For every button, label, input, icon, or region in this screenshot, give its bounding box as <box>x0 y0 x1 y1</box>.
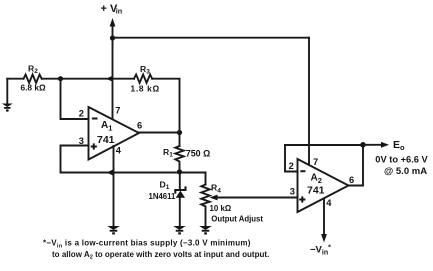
label A2 minus <box>300 170 305 172</box>
wire A1 pin3 stub and feedback loop down-left <box>61 146 206 173</box>
svg-text:741: 741 <box>307 185 325 197</box>
svg-text:2: 2 <box>79 108 84 118</box>
node junction dot pin2 node <box>58 76 63 81</box>
svg-text:to allow A2 to operate with ze: to allow A2 to operate with zero volts a… <box>52 250 269 261</box>
svg-text:3: 3 <box>290 187 295 197</box>
svg-text:R3: R3 <box>140 64 150 76</box>
wire E0 output arrow <box>363 142 389 148</box>
label A1 minus <box>92 118 98 120</box>
junction wedge at pin4 crossing <box>107 170 114 176</box>
wire junction down to A1 pin 2 <box>61 79 89 119</box>
diode D1 zener <box>175 173 185 227</box>
resistor R1 zigzag <box>175 146 183 172</box>
svg-text:4: 4 <box>116 145 122 155</box>
svg-text:0V to +6.6 V: 0V to +6.6 V <box>375 155 428 165</box>
wire A1 pin4 down to ground <box>113 146 115 226</box>
resistor R3 <box>134 75 152 83</box>
resistor R2 <box>24 75 42 83</box>
ground left symbol <box>2 104 13 112</box>
wire R2 right to junction and on to R3 <box>42 78 134 80</box>
svg-text:10 kΩ: 10 kΩ <box>210 204 232 213</box>
svg-text:R2: R2 <box>28 63 38 75</box>
svg-text:4: 4 <box>326 198 332 208</box>
node junction dot output A1 / R3 / R1 <box>177 130 182 135</box>
svg-text:1.8 kΩ: 1.8 kΩ <box>131 84 160 94</box>
op-amp U1 A1 triangle <box>89 107 140 160</box>
ground below D1 <box>173 226 186 235</box>
svg-text:*−Vin is a low-current bias su: *−Vin is a low-current bias supply (−3.0… <box>43 239 251 250</box>
wire +V vertical to A1 pin7 <box>112 38 114 118</box>
op-amp U2 A2 triangle <box>298 159 349 212</box>
wire A1 output pin 6 <box>139 132 180 134</box>
svg-text:6: 6 <box>137 121 142 131</box>
svg-text:Eo: Eo <box>393 139 405 152</box>
svg-text:7: 7 <box>115 106 120 116</box>
label A2 plus <box>299 196 305 202</box>
ground below R4 <box>199 226 212 235</box>
svg-text:A2: A2 <box>311 173 322 186</box>
wire R2-R3 horizontal at y=78.7 <box>7 78 23 80</box>
label A1 plus <box>91 143 97 149</box>
svg-text:3: 3 <box>79 136 84 146</box>
power +Vin arrow <box>110 18 116 38</box>
svg-text:741: 741 <box>97 134 115 146</box>
wire R3 right lead to corner <box>152 79 179 133</box>
svg-text:6.8 kΩ: 6.8 kΩ <box>21 83 46 93</box>
wire output down to pin 6 <box>349 145 364 186</box>
ground left stem <box>6 79 8 104</box>
svg-text:in: in <box>116 7 122 16</box>
wire top rail +Vin <box>113 37 310 39</box>
svg-text:−Vin*: −Vin* <box>310 245 331 257</box>
resistor R4 zigzag <box>201 185 209 227</box>
label +Vin <box>101 3 123 16</box>
svg-text:750 Ω: 750 Ω <box>186 149 210 159</box>
svg-text:7: 7 <box>313 157 318 167</box>
potentiometer R4 leads <box>205 173 207 185</box>
wire A2 supply drop from rail to pin 7 <box>308 38 310 164</box>
node junction dot output E0 <box>360 142 366 148</box>
svg-text:6: 6 <box>349 175 354 185</box>
R4 wiper arrow from A2 pin3 <box>210 195 298 201</box>
junction wedge at +V crossing R2 wire <box>106 76 112 82</box>
wire feedback/output rail y=145 <box>285 144 363 146</box>
svg-text:A1: A1 <box>101 120 112 133</box>
resistor R1 leads <box>179 133 181 147</box>
wire A2 pin4 to -Vin arrow <box>321 199 327 243</box>
svg-text:D1: D1 <box>160 180 170 192</box>
wire A2 pin2 stub and feedback corner <box>285 145 298 172</box>
svg-text:@ 5.0 mA: @ 5.0 mA <box>384 166 427 177</box>
svg-text:2: 2 <box>289 161 294 171</box>
node junction dot R1/D1 on feedback line <box>177 169 182 174</box>
svg-text:Output Adjust: Output Adjust <box>211 215 263 224</box>
svg-text:R4: R4 <box>211 183 221 195</box>
ground below A1 pin4 <box>107 226 120 235</box>
svg-text:R1: R1 <box>163 147 173 159</box>
node junction dot at +Vin rail <box>110 35 115 40</box>
svg-text:1N4611: 1N4611 <box>149 192 177 201</box>
